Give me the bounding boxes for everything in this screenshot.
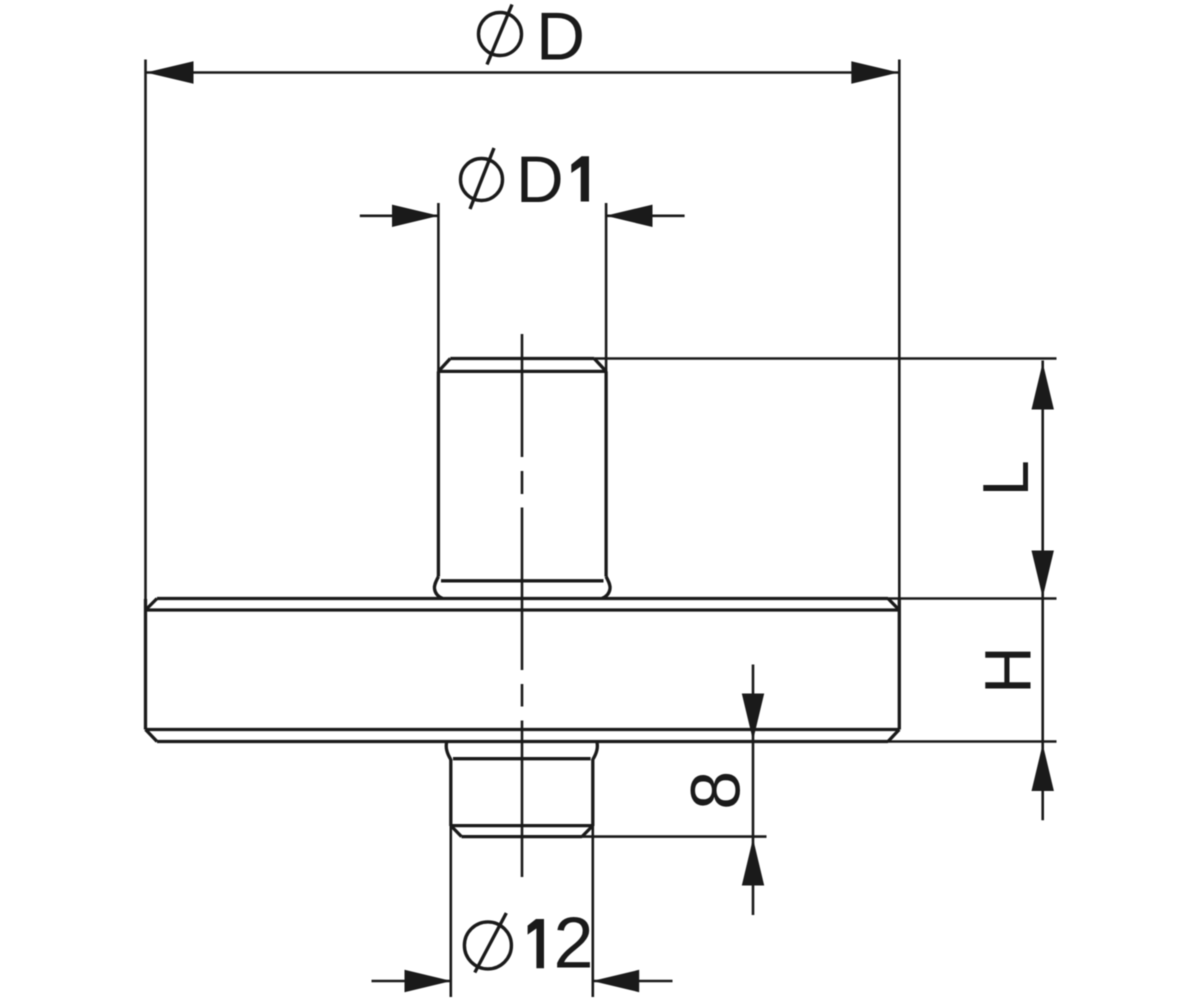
svg-text:D: D [516,142,564,216]
svg-text:H: H [971,646,1045,694]
svg-text:D: D [536,0,585,75]
svg-text:L: L [969,460,1042,496]
svg-text:8: 8 [677,771,755,810]
svg-text:2: 2 [553,904,593,984]
